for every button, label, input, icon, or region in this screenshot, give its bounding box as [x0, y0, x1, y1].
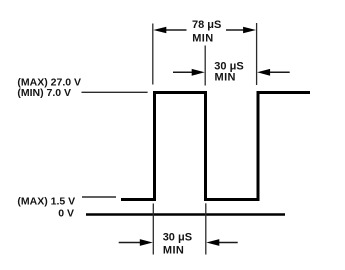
arrow 78 uS left [153, 27, 186, 34]
extension line right of 78 uS [256, 23, 258, 85]
svg-text:78 μS: 78 μS [192, 19, 221, 31]
svg-text:0 V: 0 V [58, 207, 74, 219]
wire lead from 1.5 V label [82, 196, 116, 198]
arrow bottom 30 uS right [206, 239, 237, 246]
wire 0 V baseline [86, 213, 285, 215]
arrow 78 uS right [226, 27, 256, 34]
waveform pulse train [121, 93, 310, 200]
svg-text:(MAX) 1.5 V: (MAX) 1.5 V [17, 196, 75, 208]
arrow middle 30 uS right [257, 69, 290, 76]
svg-text:MIN: MIN [192, 32, 213, 44]
wire lead from 7.0 V label [82, 91, 148, 93]
arrow bottom 30 uS left [119, 239, 153, 246]
svg-text:MIN: MIN [215, 71, 236, 83]
extension line left of 78 uS [152, 24, 154, 85]
svg-text:(MIN) 7.0 V: (MIN) 7.0 V [17, 87, 71, 99]
extension line left of bottom 30 uS [152, 204, 154, 255]
svg-text:MIN: MIN [163, 244, 184, 256]
arrow middle 30 uS left [173, 69, 205, 76]
svg-text:30 μS: 30 μS [163, 231, 192, 243]
extension line falling edge (middle 30 uS) [204, 46, 206, 86]
extension line right of bottom 30 uS [205, 203, 207, 254]
